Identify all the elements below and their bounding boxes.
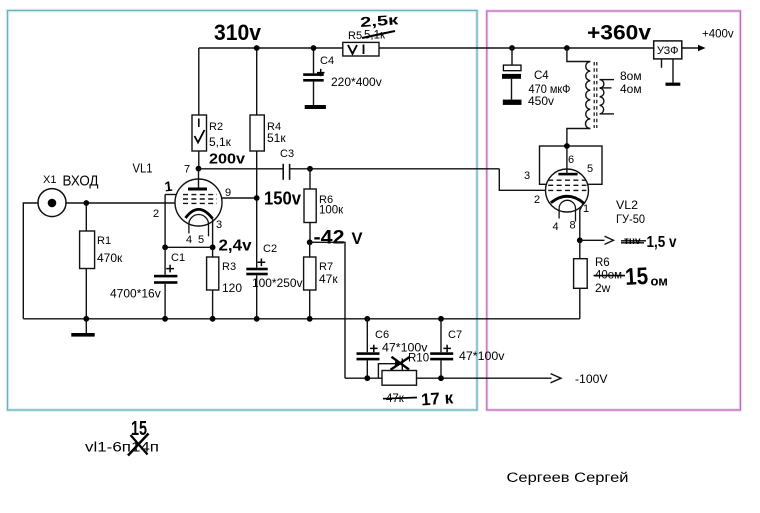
- svg-text:R10: R10: [408, 353, 429, 365]
- resistor R6 grid: [304, 169, 344, 243]
- svg-text:200v: 200v: [209, 151, 246, 168]
- svg-text:3: 3: [216, 219, 222, 231]
- svg-text:C3: C3: [280, 148, 294, 160]
- wire and arrow to +400v: [682, 29, 734, 52]
- svg-text:150v: 150v: [264, 189, 301, 209]
- handwritten 1,5 v: [647, 234, 677, 251]
- svg-text:17 к: 17 к: [420, 388, 454, 409]
- svg-text:V: V: [352, 230, 363, 248]
- node dot R4 top: [254, 45, 260, 51]
- node VL2 anode box top: [564, 143, 570, 149]
- svg-text:+360v: +360v: [587, 22, 651, 45]
- resistor R6 cathode 2w: [574, 240, 625, 318]
- wire R4 bottom to screen column: [256, 151, 258, 268]
- wire top supply rail: [199, 47, 654, 49]
- handwritten 310v: [214, 20, 262, 45]
- svg-text:2,5к: 2,5к: [360, 11, 400, 30]
- handwritten 15 bottom note: [131, 418, 147, 440]
- connector X1: [38, 174, 99, 217]
- svg-text:15: 15: [624, 263, 648, 291]
- handwritten X over R10: [391, 357, 411, 370]
- svg-text:C4: C4: [534, 70, 549, 82]
- svg-text:VL1: VL1: [133, 161, 153, 176]
- wire cathode lead: [212, 219, 214, 248]
- wire VL2 cathode lead: [580, 204, 583, 240]
- svg-text:R2: R2: [209, 121, 223, 133]
- svg-text:47*100v: 47*100v: [459, 351, 505, 363]
- resistor R1: [80, 203, 123, 319]
- resistor R3: [207, 247, 243, 318]
- svg-text:7: 7: [184, 164, 190, 176]
- rail node C2: [254, 316, 260, 322]
- capacitor C4 left: [303, 48, 382, 105]
- svg-text:-42: -42: [314, 228, 345, 249]
- arrow to -100V: [551, 372, 608, 386]
- svg-text:C2: C2: [263, 243, 277, 255]
- node C7 bottom: [438, 375, 444, 381]
- svg-text:Сергеев Сергей: Сергеев Сергей: [507, 470, 629, 485]
- capacitor C1: [110, 247, 185, 318]
- tube VL1: [133, 161, 223, 237]
- node C6 bottom: [364, 375, 370, 381]
- resistor R7: [304, 242, 339, 318]
- node anode pin7: [196, 166, 202, 172]
- svg-text:R5: R5: [348, 30, 362, 42]
- node X1-R1: [83, 200, 89, 206]
- svg-text:120: 120: [222, 281, 242, 295]
- VL2 pin labels: [524, 154, 593, 233]
- handwritten 15 ом: [624, 263, 667, 291]
- svg-text:5,1к: 5,1к: [209, 135, 232, 149]
- block УЗФ: [654, 41, 682, 83]
- handwritten 2,5к: [360, 11, 400, 30]
- svg-text:vl1-6п14п: vl1-6п14п: [85, 440, 159, 455]
- node pin9 C2: [254, 195, 260, 201]
- handwritten X over 4п: [128, 434, 149, 456]
- rail node R7: [307, 316, 313, 322]
- svg-text:2,4v: 2,4v: [219, 238, 252, 255]
- svg-text:C1: C1: [171, 252, 185, 264]
- svg-text:9: 9: [225, 187, 231, 199]
- svg-text:5: 5: [198, 234, 204, 246]
- wire grid3 tie: [165, 195, 213, 248]
- svg-text:51к: 51к: [267, 131, 286, 145]
- wire screen pin9: [222, 197, 257, 199]
- capacitor C2: [246, 243, 302, 319]
- ground under УЗФ: [666, 83, 681, 86]
- wire anode to C3: [199, 168, 283, 170]
- handwritten 200v: [209, 151, 246, 168]
- trimmer R10: [378, 353, 429, 386]
- svg-text:R1: R1: [97, 235, 111, 247]
- capacitor C6: [357, 319, 428, 378]
- wire R4 riser: [256, 48, 258, 115]
- svg-text:C7: C7: [448, 329, 462, 341]
- svg-text:Х1: Х1: [43, 174, 56, 186]
- svg-text:4: 4: [186, 234, 192, 246]
- wire R2 riser: [198, 48, 200, 115]
- handwritten pin 1: [164, 178, 174, 195]
- note vl1-6п14п: [85, 440, 159, 455]
- svg-text:3: 3: [524, 170, 530, 182]
- svg-text:6: 6: [568, 154, 574, 166]
- rail node C6: [364, 316, 370, 322]
- ground under C4 right: [503, 100, 522, 105]
- svg-text:ом: ом: [651, 274, 668, 289]
- left cyan frame: [8, 11, 478, 411]
- svg-text:8: 8: [570, 220, 576, 232]
- right magenta frame: [487, 11, 741, 410]
- tube VL2: [546, 146, 646, 226]
- wire bias row: [345, 377, 552, 379]
- rail node R1: [83, 316, 89, 322]
- handwritten 2,4v: [219, 238, 252, 255]
- svg-text:2: 2: [153, 208, 159, 220]
- wire VL2 grid step: [499, 169, 545, 191]
- svg-text:100к: 100к: [319, 205, 344, 217]
- signature Сергеев Сергей: [507, 470, 629, 485]
- svg-text:ГУ-50: ГУ-50: [616, 214, 645, 226]
- svg-text:4ом: 4ом: [620, 82, 642, 96]
- svg-text:C4: C4: [320, 55, 334, 67]
- wire -42v node to bias row: [310, 242, 345, 378]
- node C3-R6: [307, 166, 313, 172]
- resistor R5: [343, 30, 379, 56]
- rail node C1: [162, 316, 168, 322]
- svg-text:1,5 v: 1,5 v: [647, 234, 677, 251]
- value 47к crossed out: [383, 393, 417, 405]
- svg-text:100*250v: 100*250v: [252, 276, 303, 290]
- svg-text:2: 2: [534, 194, 540, 206]
- node dot transformer feed: [564, 45, 570, 51]
- value 5,1к crossed out: [362, 30, 395, 42]
- arrow 1,5v measure: [580, 236, 614, 244]
- node VL2 cathode: [577, 237, 583, 243]
- svg-text:2w: 2w: [595, 281, 611, 295]
- svg-text:220*400v: 220*400v: [331, 75, 382, 89]
- capacitor C3: [280, 148, 294, 180]
- handwritten +360v: [587, 22, 651, 45]
- ground under C4 left: [305, 105, 326, 109]
- resistor R4: [250, 115, 286, 151]
- handwritten 17 к: [420, 388, 454, 409]
- svg-text:450v: 450v: [528, 94, 554, 108]
- svg-text:4: 4: [553, 221, 559, 233]
- capacitor C4 right electrolytic: [502, 48, 571, 108]
- wire input to grid: [66, 202, 176, 204]
- svg-text:R3: R3: [222, 261, 236, 273]
- svg-text:1: 1: [583, 203, 589, 215]
- node dot C4 right top: [509, 45, 515, 51]
- svg-text:VL2: VL2: [616, 200, 638, 212]
- svg-text:47к: 47к: [319, 272, 338, 286]
- svg-text:C6: C6: [375, 329, 389, 341]
- VL2 anode connection box: [540, 146, 603, 184]
- node cathode left: [162, 244, 168, 250]
- crossed тн scribble: [621, 236, 646, 247]
- wire C3 to VL2 grid: [290, 168, 500, 170]
- svg-text:R6: R6: [595, 257, 610, 269]
- node -42v: [307, 239, 313, 245]
- handwritten -42 V: [314, 228, 363, 249]
- svg-text:+400v: +400v: [702, 29, 734, 41]
- wire ground rail: [23, 318, 580, 320]
- wire R2 bottom to anode node: [198, 151, 200, 169]
- svg-text:4700*16v: 4700*16v: [110, 287, 161, 301]
- svg-text:-100V: -100V: [575, 372, 608, 386]
- svg-text:5: 5: [587, 163, 593, 175]
- rail node C7: [438, 316, 444, 322]
- svg-text:310v: 310v: [214, 20, 262, 45]
- node cathode right: [210, 244, 216, 250]
- svg-text:УЗФ: УЗФ: [657, 45, 679, 57]
- ground symbol main: [71, 319, 94, 337]
- wire X1 left leg: [23, 203, 38, 319]
- capacitor C7: [430, 319, 505, 378]
- node dot C4 left top: [311, 45, 317, 51]
- svg-text:8ом: 8ом: [620, 69, 642, 83]
- resistor R2: [192, 115, 232, 151]
- rail node R3: [210, 316, 216, 322]
- svg-text:470к: 470к: [97, 251, 123, 265]
- svg-text:ВХОД: ВХОД: [63, 174, 99, 190]
- handwritten 150v: [264, 189, 301, 209]
- output transformer T1: [567, 48, 642, 146]
- VL1 pin labels: [153, 164, 231, 247]
